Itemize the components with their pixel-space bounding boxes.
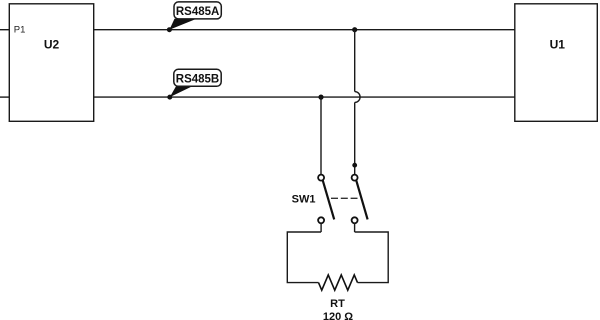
wire RS485A drop upper — [354, 30, 356, 92]
junction dot above switch — [352, 163, 357, 168]
wire switch B to loop — [354, 223, 356, 232]
SW1 pole B top terminal — [352, 175, 358, 181]
wire RS485B drop — [320, 97, 322, 175]
SW1 pole A blade — [323, 181, 334, 220]
svg-text:U1: U1 — [550, 38, 566, 52]
junction node RS485A tap — [352, 27, 357, 32]
svg-text:RS485B: RS485B — [176, 74, 219, 86]
switch SW1 — [292, 175, 368, 224]
wire RS485B U2 to U1 — [94, 96, 515, 98]
junction dot RS485B label — [167, 95, 172, 100]
svg-text:120 Ω: 120 Ω — [323, 311, 353, 320]
svg-text:RT: RT — [330, 298, 345, 310]
pin stub P1 bottom — [0, 96, 9, 98]
net label RS485A — [169, 2, 221, 30]
wire hop over RS485B — [355, 92, 360, 103]
SW1 pole B blade — [356, 181, 367, 220]
svg-text:P1: P1 — [14, 25, 26, 36]
IC U1 — [515, 4, 598, 122]
resistor RT — [319, 275, 358, 290]
IC U2 — [9, 4, 93, 122]
wire switch A to loop — [320, 223, 322, 232]
SW1 pole B bottom terminal — [352, 217, 358, 223]
net label RS485B — [170, 69, 221, 97]
junction node RS485B tap — [318, 95, 323, 100]
junction dot RS485A label — [167, 27, 172, 32]
wire loop right to resistor — [355, 232, 389, 283]
SW1 pole A bottom terminal — [318, 217, 324, 223]
wire RS485A U2 to U1 — [94, 29, 515, 31]
pin stub P1 top — [0, 29, 9, 31]
SW1 gang link dashed — [331, 197, 358, 199]
svg-text:RS485A: RS485A — [176, 6, 219, 18]
svg-text:SW1: SW1 — [292, 194, 316, 206]
wire RS485A drop lower — [354, 102, 356, 174]
svg-text:U2: U2 — [44, 38, 60, 52]
SW1 pole A top terminal — [318, 175, 324, 181]
wire loop left to resistor — [287, 232, 321, 283]
